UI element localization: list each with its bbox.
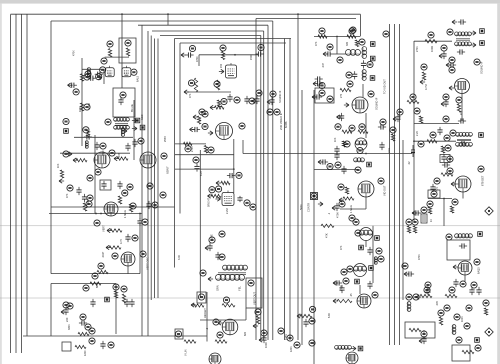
svg-text:100K: 100K [461, 316, 464, 322]
transformer T5 primary [455, 234, 473, 238]
resistor R60 [425, 40, 437, 43]
resistor R50 [318, 35, 327, 38]
wire sound y54 [333, 53, 346, 55]
junction sound grid [336, 36, 338, 38]
tube V10 sound IF [455, 79, 470, 94]
resistor R100 label [86, 201, 92, 207]
tube V10 label [474, 59, 480, 65]
arrow ground R103 [106, 245, 111, 249]
pot R74 label [431, 191, 437, 197]
wire video out drop [365, 197, 367, 209]
transformer T4 core b [457, 140, 471, 142]
arrow V11 grid [451, 182, 456, 186]
resistor R123 label [217, 332, 223, 338]
contrast pot box [311, 193, 318, 200]
capacitor C22 label [258, 44, 264, 50]
svg-text:4700: 4700 [196, 56, 199, 62]
resistor R3 label [107, 41, 113, 47]
capacitor C51 label [367, 61, 373, 67]
capacitor C24 label [249, 98, 255, 104]
resistor R110 label [89, 328, 95, 334]
cathode label V2 [95, 169, 101, 175]
capacitor C43b [334, 152, 339, 160]
wire rail x256 [255, 19, 257, 341]
arrow V8 grid [344, 103, 349, 107]
wire rail x151 [150, 36, 152, 301]
resistor R78 [450, 206, 453, 213]
coil L13 [354, 158, 365, 162]
rail junction label b [274, 109, 280, 115]
arrow ground C77 [412, 211, 417, 215]
wire bl x116 [115, 284, 117, 335]
output transformer box [447, 240, 470, 260]
svg-text:220K: 220K [87, 199, 90, 205]
height pot box [197, 292, 206, 303]
capacitor C143 label [421, 331, 427, 337]
coil L2 label [85, 71, 91, 77]
wire T6-T7 link [372, 226, 374, 283]
resistor R4 label [125, 40, 131, 46]
capacitor C85 label [339, 201, 345, 207]
wire rail x148 [147, 31, 149, 336]
arrow V14 grid [218, 321, 223, 325]
transformer T3 primary [455, 32, 472, 36]
resistor R104 [97, 270, 108, 273]
resistor R3 [108, 49, 111, 57]
arrow ground R130 [253, 324, 258, 328]
tube V13 vert osc [121, 252, 135, 266]
capacitor C23 [227, 94, 232, 102]
resistor R75 [428, 207, 431, 214]
junction vert osc [139, 213, 141, 215]
wire sound takeoff drop [359, 14, 361, 36]
capacitor C91 label [349, 215, 355, 221]
coil L15 label [337, 57, 343, 63]
capacitor C4 label [101, 58, 107, 64]
svg-text:135V: 135V [284, 334, 288, 340]
resistor R87 [321, 224, 334, 227]
wire V7 drop [233, 169, 235, 193]
svg-text:SOUND IF: SOUND IF [375, 97, 379, 110]
wire vert osc drop [127, 266, 129, 274]
svg-text:.047: .047 [118, 153, 121, 158]
resistor R102 [110, 229, 122, 232]
transformer T4 label [444, 135, 450, 141]
wire bus y18 [256, 18, 356, 20]
tube V17 vert out right [357, 294, 371, 308]
discriminator box [405, 322, 435, 338]
capacitor C44 [379, 142, 384, 150]
capacitor C71 [437, 127, 442, 135]
detector shield box [315, 88, 334, 103]
wire sound sect top [414, 40, 452, 42]
arrow ground C38 [312, 95, 317, 99]
resistor R101 label [130, 203, 136, 209]
capacitor C110 [63, 307, 68, 315]
bottom box label [456, 337, 462, 343]
transformer T8 core b [218, 274, 246, 276]
resistor R4 [126, 48, 129, 56]
resistor R72 [441, 173, 453, 176]
socket M3 [475, 338, 480, 343]
capacitor C29 [194, 163, 199, 171]
capacitor C113 label [108, 342, 114, 348]
capacitor C111 [79, 320, 87, 325]
resistor R63 label [414, 108, 420, 114]
capacitor C42 label [359, 124, 365, 130]
wire sound spine a [362, 84, 364, 97]
wire vert bottom y320 [200, 319, 246, 321]
wire video spine c [365, 240, 367, 247]
resistor R140 label [444, 305, 450, 311]
capacitor C101 label [132, 235, 138, 241]
svg-text:VERT: VERT [102, 225, 106, 232]
wire rail x302 [301, 90, 303, 345]
resistor R11 [76, 159, 87, 162]
svg-text:270: 270 [340, 93, 343, 98]
capacitor C47 label [335, 162, 341, 168]
transformer T6 label [355, 230, 361, 236]
wire rail x290 [289, 39, 291, 341]
resistor R27 [215, 106, 225, 109]
capacitor C18 [117, 181, 122, 189]
tube V9 video output [358, 181, 374, 197]
wire rail x268 [267, 25, 269, 340]
coil L4 [85, 141, 88, 149]
trimmer box 2 [62, 342, 71, 351]
coil L13 label [355, 167, 361, 173]
resistor R86 [343, 197, 354, 200]
arrow V6 grid [208, 131, 213, 135]
capacitor C144 [339, 285, 344, 293]
capacitor C110 label [63, 302, 69, 308]
svg-text:330K: 330K [68, 324, 71, 330]
capacitor C48 [341, 166, 346, 174]
wire rail x297 [297, 14, 299, 340]
wire sound y123 [414, 122, 459, 124]
fold crease line upper [0, 225, 500, 227]
svg-text:120K: 120K [290, 346, 293, 352]
svg-text:.25: .25 [350, 293, 353, 297]
resistor R80 [420, 294, 432, 297]
svg-text:1000: 1000 [264, 342, 268, 348]
capacitor C80 [459, 243, 467, 248]
resistor R78 label [452, 199, 458, 205]
resistor R101 [129, 204, 132, 212]
capacitor C12 [94, 142, 99, 150]
arrow ground C63 [446, 63, 451, 67]
svg-text:8.2K: 8.2K [200, 171, 203, 176]
wire B+ rail 1 [10, 15, 12, 354]
wire ratio det y141 [414, 140, 456, 142]
resistor R131 [300, 314, 312, 317]
terminal T2b [370, 56, 375, 61]
resistor R103 [109, 246, 121, 249]
arrow ground R61 [420, 80, 425, 84]
vlin pot box [175, 329, 183, 339]
wire audio y198 [428, 198, 452, 200]
resistor R62 label [456, 97, 462, 103]
resistor R77 label [406, 219, 412, 225]
capacitor C51 [361, 60, 366, 68]
resistor R23 [216, 80, 219, 90]
resistor R141 label [466, 305, 472, 311]
capacitor C102 label [112, 253, 118, 259]
arrow ground C26 [190, 127, 195, 131]
wire bottom-left bus [23, 335, 207, 337]
resistor R51 [347, 35, 356, 38]
arrow V1 grid [96, 75, 101, 79]
arrow R28a top [193, 115, 198, 119]
transformer T7 circle [354, 264, 367, 277]
capacitor C63 label [449, 57, 455, 63]
capacitor C8 label [73, 89, 79, 95]
svg-text:470: 470 [460, 110, 463, 115]
rail label 135V [287, 335, 293, 341]
capacitor C130 label [309, 318, 315, 324]
resistor R75 label [427, 201, 433, 207]
resistor R26 label [221, 98, 227, 104]
transformer T5 label [446, 234, 452, 240]
svg-text:2.2K: 2.2K [416, 131, 419, 136]
capacitor C16 label [67, 185, 73, 191]
resistor R104 label [98, 263, 104, 269]
resistor R63 [419, 116, 422, 123]
capacitor C60 [441, 51, 446, 59]
capacitor C43 [334, 146, 339, 154]
capacitor C11b label [83, 127, 89, 133]
capacitor C100 label [142, 219, 148, 225]
resistor R107 label [92, 273, 98, 279]
resistor R105 [122, 294, 125, 303]
junction ratio det [413, 140, 415, 142]
wire IF1 cathode [187, 91, 231, 93]
transformer T4 secondary [456, 142, 473, 146]
capacitor C21 label [189, 45, 195, 51]
capacitor C60 label [441, 45, 447, 51]
rail junction label a [267, 109, 273, 115]
capacitor C16b label [87, 195, 93, 201]
capacitor C131 label [261, 330, 267, 336]
wire rail x158 [157, 39, 159, 299]
brightness label b [216, 186, 222, 192]
svg-text:.0047: .0047 [102, 251, 105, 258]
resistor R111 [75, 345, 86, 348]
resistor R61 label [421, 64, 427, 70]
arrow tap R86 [318, 202, 323, 206]
resistor R29 [204, 146, 207, 154]
capacitor C38 [314, 94, 322, 99]
arrow T1 tap [132, 118, 137, 122]
arrow ground R131 [297, 314, 302, 318]
resistor R26 [217, 100, 220, 107]
capacitor C12 label [100, 143, 106, 149]
capacitor C141 [469, 287, 474, 295]
wire rail x142 [141, 25, 143, 336]
arrow V5 grid [219, 69, 224, 73]
tube V11 ratio det [455, 176, 471, 192]
tube V14 vert output [222, 319, 238, 335]
svg-text:VERT OUT: VERT OUT [253, 292, 257, 305]
svg-text:VERT OSC: VERT OSC [146, 257, 150, 270]
svg-text:680K: 680K [96, 282, 99, 288]
tube V12 audio out [458, 261, 472, 275]
resistor R51 label [349, 28, 355, 34]
capacitor C24 [244, 96, 249, 104]
resistor R149 [409, 328, 421, 331]
svg-text:BRIGHT: BRIGHT [208, 197, 211, 207]
coil L20 line b [424, 215, 426, 222]
svg-text:.02: .02 [408, 161, 411, 165]
arrow ground C35 [267, 100, 272, 104]
resistor R7 [86, 130, 89, 138]
arrow height pot [191, 303, 196, 307]
resistor R15 [60, 170, 63, 178]
coil L12b label [357, 147, 363, 153]
resistor R21 [221, 52, 224, 60]
arrow pot R31 [208, 194, 213, 198]
capacitor C22 [255, 51, 263, 56]
coil L12 [356, 141, 367, 145]
wire V6 plate drop [233, 139, 235, 169]
tube V11 label [478, 166, 484, 172]
junction audio [443, 198, 445, 200]
terminal L13 [367, 162, 372, 167]
fold crease line lower [0, 297, 500, 299]
capacitor C66 label [443, 116, 449, 122]
wire sound grid [314, 36, 360, 38]
tube V6 2nd IF [216, 123, 233, 140]
tuner shield box [113, 88, 135, 117]
arrow ground C45 [393, 117, 398, 121]
svg-text:AGC: AGC [141, 114, 144, 120]
resistor R85 label [338, 184, 344, 190]
resistor R51b [355, 40, 358, 47]
svg-text:47K: 47K [315, 41, 318, 46]
arrow ground C110 [61, 310, 66, 314]
svg-text:47K: 47K [66, 193, 69, 198]
arrow T3 slug2 [471, 43, 476, 47]
transformer T2 coil b [362, 70, 366, 81]
wire bus y25 [138, 24, 268, 26]
scanner right strip [497, 4, 500, 364]
wire sound x337 [336, 37, 338, 55]
resistor R142 [439, 317, 442, 325]
capacitor C74 label [447, 156, 453, 162]
coil L22 [374, 257, 377, 265]
capacitor C6 label [96, 74, 102, 80]
tube V13 label [140, 251, 146, 257]
resistor R28 label [185, 146, 191, 152]
wire y169 link [175, 168, 234, 170]
tube V6 label [239, 123, 245, 129]
capacitor C140 [425, 287, 430, 295]
wire tuner y137 [74, 136, 133, 138]
tube V1b 6AL5 [122, 66, 131, 77]
capacitor C14 [132, 139, 137, 147]
wire bus y31 [152, 30, 264, 32]
svg-text:CONTR: CONTR [307, 203, 311, 212]
resistor R148 label [413, 294, 419, 300]
wire inner box top [180, 42, 286, 44]
resistor R88 label [412, 219, 418, 225]
arrow ground R86 [339, 198, 344, 202]
arrow pot R10 [67, 152, 72, 156]
wire IF box left edge [174, 39, 176, 268]
arrow ground C41 [337, 115, 342, 119]
junction label c [250, 204, 256, 210]
coil L30 [335, 345, 352, 349]
capacitor C121 [207, 243, 212, 251]
wire rail x314 [313, 90, 315, 364]
junction bus a [121, 13, 123, 15]
wire IF1 grid [199, 54, 258, 56]
svg-text:150: 150 [220, 63, 223, 68]
capacitor C63 [448, 62, 456, 67]
capacitor C13 [125, 143, 130, 151]
capacitor C45 [395, 114, 400, 122]
svg-text:6T8 DET: 6T8 DET [481, 175, 485, 186]
svg-text:V LIN: V LIN [184, 349, 188, 356]
socket M1 [359, 245, 364, 250]
capacitor C106 [124, 299, 129, 307]
wire x140 lower [139, 222, 141, 274]
terminal T3b [480, 41, 485, 46]
resistor R43 [342, 141, 345, 147]
resistor R6 label [84, 104, 90, 110]
resistor R105 label [121, 286, 127, 292]
arrow ground IF1 [184, 90, 189, 94]
capacitor C112 label [85, 324, 91, 330]
resistor R29 label [208, 147, 214, 153]
svg-text:1500: 1500 [102, 150, 105, 156]
wire B+ rail 3 [21, 15, 23, 354]
svg-text:4700: 4700 [336, 212, 340, 218]
arrow ground R30 [216, 181, 221, 185]
capacitor C81 [406, 271, 414, 276]
capacitor C72 label [430, 132, 436, 138]
capacitor C73 electrolytic [411, 145, 415, 157]
arrow ground C131 [259, 338, 264, 342]
wire rail x403 [402, 140, 404, 300]
transformer T1 secondary [114, 126, 130, 130]
capacitor C76 [430, 184, 435, 192]
transformer T2 coil a [362, 47, 367, 59]
resistor R77 [407, 226, 410, 233]
arrow ground R27 [210, 105, 215, 109]
tube V1 label [131, 69, 137, 75]
capacitor C122 [215, 252, 220, 260]
coil L12 label [344, 141, 350, 147]
terminal T3a [480, 29, 485, 34]
wire B+ rail 4 [26, 15, 28, 337]
rail label r1 [147, 183, 153, 189]
capacitor C101 [125, 234, 130, 242]
svg-text:YEL: YEL [238, 286, 242, 291]
wire bus y35 [160, 35, 261, 37]
pot R73 label [434, 178, 440, 184]
capacitor C61 [458, 19, 466, 24]
capacitor C52 [325, 51, 333, 56]
jack J3 [485, 328, 493, 336]
svg-text:.005: .005 [436, 301, 439, 306]
svg-text:330: 330 [346, 41, 349, 46]
junction label [83, 285, 89, 291]
svg-text:3.3K: 3.3K [178, 255, 181, 260]
wire osc column [81, 58, 83, 146]
arrow T8 tap [208, 277, 213, 281]
capacitor C65 label [443, 94, 449, 100]
